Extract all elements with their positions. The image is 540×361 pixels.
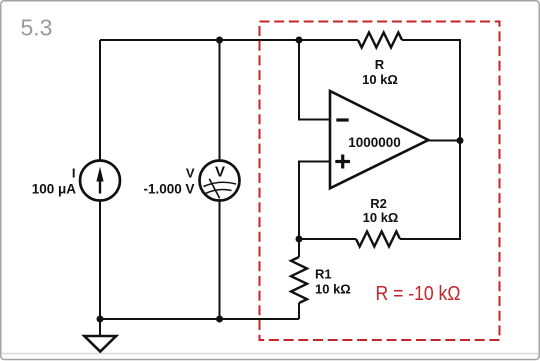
junction output node (457, 137, 464, 144)
junction node R1 R2 (296, 236, 303, 243)
wire voltmeter lower (219, 201, 221, 320)
svg-text:V: V (186, 166, 195, 181)
current source I1 (80, 161, 120, 201)
wire R1 lower (298, 303, 300, 319)
svg-text:R = -10 kΩ: R = -10 kΩ (376, 282, 461, 305)
wire voltmeter upper (219, 40, 221, 161)
voltmeter VM1 (200, 161, 240, 201)
wire left vertical lower (99, 201, 101, 320)
wire bottom (100, 318, 299, 320)
svg-text:10 kΩ: 10 kΩ (362, 72, 398, 87)
junction top inverting branch (296, 37, 303, 44)
wire top right (402, 39, 460, 41)
svg-text:10 kΩ: 10 kΩ (315, 282, 351, 297)
op-amp U1 (330, 91, 428, 188)
resistor R (358, 33, 402, 48)
svg-text:I: I (72, 166, 76, 181)
wire right vertical (459, 39, 461, 240)
wire inverting input (299, 40, 330, 120)
wire output (428, 140, 460, 142)
boundary negative resistance box (260, 22, 500, 341)
svg-text:10 kΩ: 10 kΩ (363, 210, 399, 225)
svg-text:5.3: 5.3 (21, 15, 53, 41)
wire left vertical upper (99, 40, 101, 161)
resistor R2 (356, 232, 400, 247)
wire R1 upper (298, 239, 300, 257)
svg-text:R1: R1 (315, 267, 332, 282)
wire top left (100, 39, 358, 41)
junction bottom voltmeter node (216, 316, 223, 323)
junction ground node (97, 316, 104, 323)
wire noninverting input (299, 162, 330, 240)
wire R2 left (299, 238, 356, 240)
resistor R1 (291, 257, 307, 303)
svg-text:R: R (375, 57, 385, 72)
svg-text:1000000: 1000000 (348, 135, 401, 150)
ground (84, 319, 116, 352)
svg-text:R2: R2 (370, 196, 387, 211)
junction top voltmeter node (216, 37, 223, 44)
svg-text:-1.000 V: -1.000 V (143, 182, 194, 197)
svg-text:100 μA: 100 μA (32, 182, 77, 197)
svg-text:V: V (215, 164, 225, 181)
wire R2 right (400, 238, 460, 240)
